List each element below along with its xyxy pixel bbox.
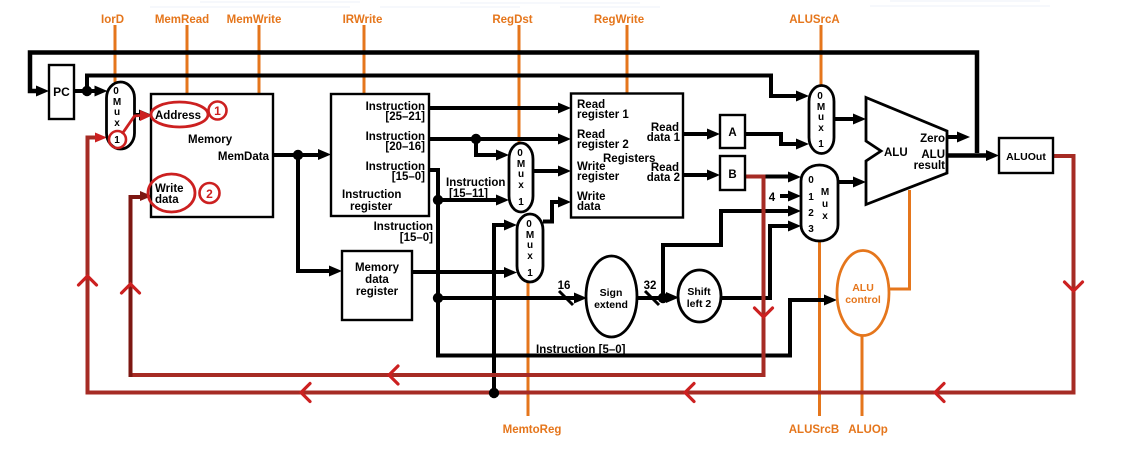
register A	[720, 115, 745, 148]
svg-text:u: u	[818, 112, 824, 123]
red annotation 2	[200, 183, 220, 203]
arrow into PC	[36, 86, 49, 97]
Memory data register	[342, 251, 412, 320]
svg-text:register 1: register 1	[577, 109, 629, 121]
wire Read data 2 to B	[683, 173, 708, 177]
junction ALUOut feedback	[489, 388, 499, 398]
junction PC out	[82, 86, 92, 96]
arrow into Instruction register	[318, 149, 331, 160]
junction Instruction 20-16	[471, 134, 481, 144]
Memory unit	[151, 94, 273, 217]
label Instruction 15-11	[446, 177, 505, 200]
wire ALUSrcA mux out	[834, 117, 854, 121]
svg-text:16: 16	[558, 280, 571, 292]
wire PC to ALUSrcA mux	[87, 76, 797, 97]
mux RegDst	[509, 143, 533, 212]
svg-text:data: data	[577, 201, 601, 213]
mux ALUSrcA	[809, 86, 834, 154]
wire MemData out	[273, 153, 319, 157]
svg-text:register: register	[356, 286, 399, 298]
red arrow left ALUOut feedback 1	[935, 384, 944, 402]
wire Instruction 20-16	[429, 137, 559, 141]
wire IorD mux to Address	[135, 113, 142, 117]
svg-text:4: 4	[769, 192, 776, 204]
arrow into Memory data register	[329, 266, 342, 277]
svg-text:0: 0	[817, 91, 823, 102]
svg-text:data 1: data 1	[647, 132, 681, 144]
wire B to ALUSrcB mux	[745, 175, 789, 179]
wire Read data 1 to A	[683, 132, 708, 136]
svg-text:[15–0]: [15–0]	[392, 171, 425, 183]
svg-text:0: 0	[517, 148, 523, 159]
label Instruction 15-0 lower	[374, 221, 434, 244]
bus slash 16	[559, 291, 573, 305]
red circle on IorD mux 1	[109, 131, 126, 148]
svg-text:[25–21]: [25–21]	[385, 111, 425, 123]
ALU control unit	[837, 251, 889, 336]
shift left 2 unit	[678, 270, 721, 322]
arrow into ALUSrcB mux input 0	[788, 172, 801, 183]
bus slash 32	[645, 291, 659, 305]
junction sign-extend tap	[433, 293, 443, 303]
arrow into ALUOut	[986, 150, 999, 161]
svg-text:Shift: Shift	[687, 286, 711, 298]
svg-text:ALUSrcA: ALUSrcA	[789, 14, 839, 26]
mux IorD	[107, 82, 135, 149]
red leader line to Address	[122, 116, 140, 135]
arrow into ALU top input	[853, 114, 866, 125]
red annotation 1	[209, 102, 227, 120]
register B	[720, 156, 745, 190]
mux ALUSrcB	[801, 165, 838, 241]
red arrow down B path	[755, 308, 773, 317]
wire PC feedback top	[30, 53, 977, 154]
arrow into RegDst mux input 1	[496, 195, 509, 206]
ALUOp control line	[861, 335, 864, 416]
svg-text:ALUOp: ALUOp	[848, 424, 888, 436]
Instruction register	[331, 94, 429, 216]
svg-text:Registers: Registers	[603, 153, 655, 165]
svg-text:IRWrite: IRWrite	[343, 14, 383, 26]
ALUSrcB control line	[818, 241, 821, 416]
svg-text:Address: Address	[155, 110, 201, 122]
svg-text:IorD: IorD	[101, 14, 124, 26]
svg-text:x: x	[822, 211, 828, 222]
svg-text:MemWrite: MemWrite	[227, 14, 282, 26]
svg-text:left 2: left 2	[687, 298, 712, 310]
red arrow up B path	[122, 284, 140, 293]
arrow into ALU bottom input	[853, 177, 866, 188]
wire B to Write data red vertical	[131, 197, 142, 377]
wire constant 4	[780, 194, 789, 198]
svg-text:RegDst: RegDst	[492, 14, 532, 26]
arrow Zero to feedback	[957, 132, 970, 143]
svg-text:A: A	[728, 127, 736, 139]
svg-text:Sign: Sign	[600, 287, 623, 299]
red arrow at Address	[140, 110, 152, 121]
svg-text:u: u	[114, 107, 120, 118]
svg-text:x: x	[518, 180, 524, 191]
svg-text:3: 3	[808, 224, 814, 235]
svg-text:[15–0]: [15–0]	[400, 232, 433, 244]
wire ALUOut to MemtoReg mux	[494, 225, 505, 393]
svg-text:[20–16]: [20–16]	[385, 141, 425, 153]
junction sign extend out	[658, 293, 668, 303]
svg-text:1: 1	[114, 135, 120, 146]
arrow into ALU control	[824, 295, 837, 306]
wire RegDst mux out	[533, 169, 559, 173]
svg-text:ALU: ALU	[852, 282, 874, 294]
svg-text:Memory: Memory	[355, 262, 400, 274]
red ellipse around Address	[151, 102, 208, 127]
wire Instruction 25-21	[429, 106, 559, 110]
svg-text:1: 1	[818, 139, 824, 150]
RegWrite control line	[626, 25, 629, 94]
wire A to ALUSrcA mux	[745, 134, 797, 144]
svg-text:ALUOut: ALUOut	[1006, 151, 1046, 163]
MemtoReg control line	[527, 282, 530, 416]
Registers unit	[571, 94, 683, 218]
wire sign extend to ALUSrcB mux	[663, 211, 789, 298]
red arrow into IorD mux input 1	[95, 133, 107, 143]
svg-text:MemtoReg: MemtoReg	[503, 424, 562, 436]
svg-text:register: register	[350, 201, 393, 213]
arrow into sign extend	[574, 293, 587, 304]
MemRead control line	[186, 25, 189, 94]
svg-text:u: u	[822, 199, 828, 210]
wire MemData to Memory data register	[298, 155, 331, 271]
wire to sign extend	[438, 296, 574, 300]
svg-text:Zero: Zero	[920, 133, 945, 145]
svg-text:ALUSrcB: ALUSrcB	[789, 424, 839, 436]
arrow into A	[707, 129, 720, 140]
svg-text:PC: PC	[53, 85, 70, 99]
svg-text:x: x	[114, 118, 120, 129]
red arrow down ALUOut feedback	[1065, 282, 1083, 291]
svg-text:[15–11]: [15–11]	[449, 188, 488, 200]
RegDst control line	[518, 25, 521, 143]
svg-text:1: 1	[808, 192, 814, 203]
wire ALUSrcB mux out	[838, 180, 854, 184]
arrow into Write register	[558, 166, 571, 177]
svg-text:data: data	[155, 194, 179, 206]
ALUSrcA control line	[820, 25, 823, 86]
arrow into Memory Address	[139, 110, 152, 121]
arrow into ALUSrcB mux input 2	[788, 206, 801, 217]
svg-text:x: x	[527, 251, 533, 262]
IorD control line	[114, 25, 117, 82]
svg-text:0: 0	[808, 175, 814, 186]
svg-text:32: 32	[644, 280, 657, 292]
IRWrite control line	[363, 25, 366, 93]
arrow into MemtoReg mux input 1	[504, 267, 517, 278]
svg-text:register 2: register 2	[577, 139, 629, 151]
red arrow left B path	[389, 366, 398, 384]
svg-text:M: M	[821, 187, 829, 198]
wire ALU result out	[947, 153, 987, 158]
svg-text:B: B	[728, 169, 736, 181]
arrow into ALUSrcA mux input 0	[796, 91, 809, 102]
svg-text:Instruction [5–0]: Instruction [5–0]	[536, 344, 626, 356]
svg-text:u: u	[518, 169, 524, 180]
red arrow left ALUOut feedback 2	[685, 384, 694, 402]
svg-text:Memory: Memory	[188, 134, 233, 146]
sign extend unit	[586, 256, 637, 337]
arrow into shift left 2	[666, 292, 679, 303]
svg-text:RegWrite: RegWrite	[594, 14, 644, 26]
red ellipse around Write data	[148, 174, 195, 212]
arrow into ALUSrcB mux input 3	[788, 221, 801, 232]
register ALUOut	[999, 138, 1053, 173]
arrow into Read register 1	[558, 103, 571, 114]
svg-text:u: u	[527, 240, 533, 251]
svg-text:0: 0	[113, 86, 119, 97]
arrow into Write data	[558, 197, 571, 208]
wire ALUOut feedback red	[88, 138, 1074, 393]
svg-text:1: 1	[214, 104, 221, 118]
wire MDR out	[412, 270, 505, 274]
wire MemtoReg mux out	[543, 202, 559, 222]
wire Instruction 15-11	[438, 198, 497, 202]
svg-text:ALU: ALU	[884, 147, 908, 159]
ALU control to ALU wire	[887, 190, 910, 289]
wire PC out	[74, 89, 97, 93]
junction MemData	[293, 150, 303, 160]
arrow into ALUSrcA mux input 1	[796, 139, 809, 150]
arrow into IorD mux	[95, 86, 108, 97]
svg-text:register: register	[577, 171, 620, 183]
mux MemtoReg	[517, 214, 543, 282]
junction Instruction 15-11 tap	[433, 195, 443, 205]
red arrow up ALUOut feedback	[79, 276, 97, 285]
svg-text:extend: extend	[594, 299, 628, 311]
wire sign extend out	[637, 296, 666, 300]
svg-text:control: control	[845, 294, 881, 306]
arrow into ALUSrcB mux input 1	[788, 191, 801, 202]
svg-text:result: result	[914, 160, 945, 172]
svg-text:2: 2	[808, 208, 814, 219]
arrow into MemtoReg mux input 0	[504, 220, 517, 231]
svg-text:1: 1	[527, 268, 533, 279]
wire Zero out	[947, 135, 958, 139]
svg-text:MemData: MemData	[218, 151, 270, 163]
ALU	[866, 98, 947, 205]
red arrow left ALUOut feedback 3	[301, 384, 310, 402]
svg-text:MemRead: MemRead	[155, 14, 209, 26]
arrow into RegDst mux input 0	[496, 150, 509, 161]
svg-text:1: 1	[518, 197, 524, 208]
svg-text:2: 2	[206, 187, 213, 201]
decor	[150, 1, 1050, 7]
svg-text:Instruction: Instruction	[342, 189, 401, 201]
wire shift left 2 to ALUSrcB mux	[721, 226, 789, 298]
svg-text:0: 0	[526, 219, 532, 230]
red arrow into Memory Write data	[140, 191, 152, 201]
wire Instruction 15-0 bus	[429, 170, 825, 356]
wire B to Write data red	[132, 177, 764, 376]
svg-text:data 2: data 2	[647, 172, 680, 184]
wire Instruction 20-16 to RegDst mux	[476, 139, 497, 155]
svg-text:data: data	[365, 274, 389, 286]
MemWrite control line	[258, 25, 261, 94]
arrow into B	[707, 170, 720, 181]
svg-text:x: x	[818, 123, 824, 134]
arrow into Read register 2	[558, 134, 571, 145]
register PC	[49, 65, 74, 119]
